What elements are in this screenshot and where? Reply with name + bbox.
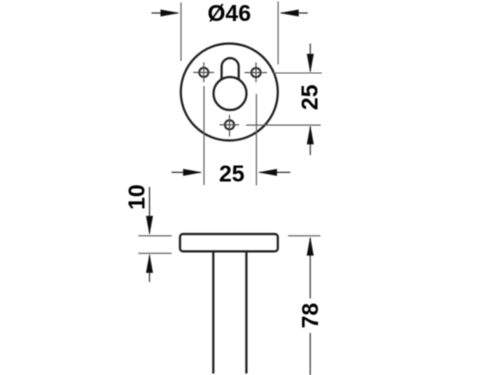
extension line left (dia 46) (180, 3, 182, 61)
dim arrow upper (10 dim) (146, 187, 153, 235)
extension line top (78 dim) (288, 235, 320, 237)
screw hole left (193, 62, 214, 82)
extension line bottom (10 dim) (138, 252, 171, 254)
keyhole circle (214, 77, 247, 110)
keyhole slot (222, 58, 239, 79)
dim arrow right (dia 46) (280, 10, 308, 17)
svg-text:10: 10 (124, 184, 150, 210)
extension line left vertical (bottom 25 dim) (203, 86, 205, 185)
dim arrow left (dia 46) (152, 10, 180, 17)
svg-text:25: 25 (219, 161, 245, 187)
extension line right vertical (bottom 25 dim) (255, 94, 257, 185)
stem left edge (side view) (212, 252, 214, 374)
screw hole bottom (220, 115, 240, 137)
extension line bottom (right 25 dim) (246, 124, 321, 126)
rosette outer circle (top view) (181, 44, 278, 141)
flange plate (side view) (180, 234, 278, 251)
dim arrow top (78 dim) (307, 237, 314, 299)
screw hole right (245, 62, 268, 82)
svg-text:Ø46: Ø46 (208, 0, 251, 26)
dim arrow lower (right 25 dim) (307, 125, 314, 155)
dim arrow upper (right 25 dim) (307, 44, 314, 73)
extension line right (dia 46) (277, 1, 279, 64)
extension line top (10 dim) (138, 235, 171, 237)
svg-text:25: 25 (296, 84, 322, 110)
svg-text:78: 78 (297, 303, 323, 329)
dim line lower segment (78 dim) (309, 333, 311, 375)
dim arrow left (bottom 25 dim) (172, 169, 203, 176)
dim arrow lower (10 dim) (146, 254, 153, 282)
extension line top (right 25 dim) (274, 72, 322, 74)
stem right edge (side view) (245, 252, 247, 374)
dim arrow right (bottom 25 dim) (258, 169, 290, 176)
